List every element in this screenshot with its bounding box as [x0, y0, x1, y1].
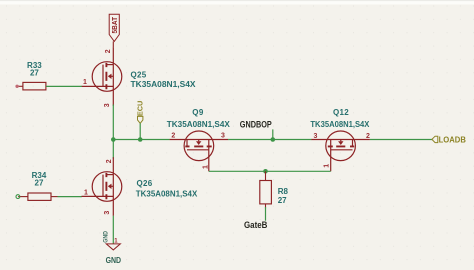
wire R34 to Q26 gate: [58, 196, 82, 198]
svg-text:27: 27: [35, 179, 44, 188]
wire gate bus Q9 to Q12: [209, 170, 331, 172]
global label 5BAT: [109, 14, 119, 41]
svg-text:TK35A08N1,S4X: TK35A08N1,S4X: [167, 120, 231, 129]
svg-text:3: 3: [104, 103, 111, 107]
junction R8: [263, 169, 268, 174]
junction ECU: [138, 137, 143, 142]
svg-text:R8: R8: [278, 187, 289, 196]
junction at drain rail: [111, 137, 116, 142]
svg-text:3: 3: [104, 211, 111, 215]
svg-text:GateB: GateB: [244, 220, 268, 230]
resistor R34: [28, 193, 51, 200]
transistor Q25: [82, 47, 122, 106]
svg-text:3: 3: [314, 133, 318, 140]
svg-text:1: 1: [323, 164, 330, 168]
svg-text:Q12: Q12: [333, 108, 349, 117]
wire GNDBOP stub: [272, 129, 274, 139]
transistor Q12: [311, 131, 370, 171]
wire Q25 source to Q26 drain: [112, 105, 114, 159]
wire ECU stub: [139, 123, 141, 139]
transistor Q9: [170, 131, 229, 171]
svg-text:5BAT: 5BAT: [110, 17, 119, 34]
resistor R33: [23, 82, 46, 90]
power symbol GND: [106, 244, 120, 250]
junction GNDBOP: [271, 137, 276, 142]
svg-text:TK35A08N1,S4X: TK35A08N1,S4X: [136, 189, 198, 198]
R34 dangling wire end: [16, 195, 20, 199]
wire main node to Q9 drain: [113, 139, 169, 141]
wire Q12 drain to LOADB: [370, 139, 432, 141]
svg-text:2: 2: [106, 159, 113, 163]
svg-text:1: 1: [84, 190, 88, 197]
svg-text:ECU: ECU: [135, 100, 144, 116]
svg-text:GNDBOP: GNDBOP: [240, 120, 272, 130]
R8 top pin: [265, 171, 267, 180]
svg-text:27: 27: [30, 69, 39, 78]
svg-text:GND: GND: [103, 231, 110, 243]
svg-text:TK35A08N1,S4X: TK35A08N1,S4X: [131, 80, 197, 89]
svg-text:2: 2: [171, 133, 175, 140]
svg-text:3: 3: [221, 133, 225, 140]
wire Q26 source to GND: [112, 216, 114, 244]
wire 5BAT to Q25 drain: [112, 41, 114, 47]
svg-text:2: 2: [105, 49, 112, 53]
svg-text:Q9: Q9: [192, 108, 204, 117]
wire R33 to Q25 gate: [46, 85, 82, 87]
hierarchical label ECU shape: [138, 116, 143, 123]
resistor R8: [260, 181, 272, 204]
R33 left pin: [17, 85, 23, 87]
R8 bottom pin: [265, 204, 267, 209]
hierarchical label LOADB shape: [432, 136, 438, 142]
svg-text:Q25: Q25: [131, 70, 147, 79]
top white strip: [0, 0, 474, 5]
svg-text:TK35A08N1,S4X: TK35A08N1,S4X: [310, 120, 370, 129]
R33 unconnected pin end: [15, 85, 18, 88]
R34 right pin: [51, 196, 58, 198]
transistor Q26: [82, 157, 122, 216]
svg-text:27: 27: [278, 196, 287, 205]
svg-text:LOADB: LOADB: [439, 134, 466, 144]
R34 left pin: [18, 196, 28, 198]
svg-text:GND: GND: [106, 255, 122, 265]
wire Q9 source to Q12 source: [228, 139, 311, 141]
svg-text:1: 1: [83, 79, 87, 86]
svg-text:1: 1: [202, 165, 209, 169]
svg-text:Q26: Q26: [137, 179, 153, 188]
wire R8 to GateB: [265, 207, 267, 221]
svg-text:2: 2: [366, 133, 370, 140]
